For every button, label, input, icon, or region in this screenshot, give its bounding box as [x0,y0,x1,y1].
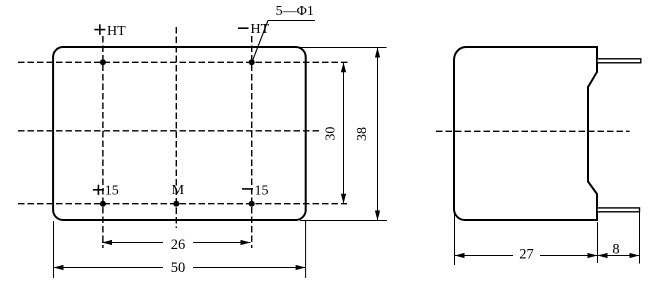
pin dot +HT [100,59,106,65]
svg-text:HT: HT [107,24,126,39]
dimension 26 line [102,242,163,244]
dimension 27 left arrow [455,253,465,258]
label -15 [242,184,269,199]
dimension 8 left arrow [598,253,608,258]
dimension 30 top arrow [341,62,346,72]
dimension 50 right arrow [296,265,306,270]
centerline vertical through -HT and -15 [251,36,253,248]
dimension 26 left arrow [102,240,112,245]
hole callout underline [268,20,315,22]
svg-text:27: 27 [519,247,534,263]
left view body outline [53,47,306,220]
svg-text:8: 8 [612,242,619,258]
side view bottom pin [597,208,640,212]
dimension 27-8 shared extension line [597,222,599,263]
dimension 50 extension line left [53,221,55,278]
dimension 30 line [343,62,345,203]
pin dot -15 [249,201,255,207]
svg-text:5—Φ1: 5—Φ1 [276,4,314,19]
pin dot M [173,201,179,207]
dimension 50 line [54,267,164,269]
centerline horizontal bottom pins row [18,203,347,205]
side view centerline [436,130,630,132]
dimension 8 extension line right [639,212,641,264]
dimension 38 extension line top [300,47,387,49]
centerline vertical through +HT and +15 [102,36,104,248]
dimension 30 bottom arrow [341,194,346,204]
svg-text:50: 50 [171,260,186,276]
svg-text:26: 26 [171,237,186,253]
pin dot -HT [249,59,255,65]
side view body outline [454,47,597,220]
centerline horizontal top pins row [18,61,348,63]
side view top pin [597,59,641,63]
pin dot +15 [100,201,106,207]
dimension 38 bottom arrow [375,211,380,221]
svg-text:15: 15 [105,183,119,198]
label +15 [93,183,119,198]
svg-text:15: 15 [255,184,269,199]
dimension 26 right arrow [241,240,251,245]
label +HT [94,24,126,39]
dimension 50 left arrow [54,265,64,270]
centerline vertical through M [175,27,177,228]
dimension 27 extension line left [454,210,456,265]
dimension 8 right arrow [630,253,640,258]
label -HT [238,22,270,37]
svg-text:38: 38 [355,127,370,141]
hole callout leader line [252,21,268,63]
svg-text:30: 30 [324,127,339,141]
dimension 38 top arrow [375,48,380,58]
dimension 8 line [598,255,640,257]
dimension 38 extension line bottom [300,220,387,222]
dimension 27 line [455,255,514,257]
dimension 50 extension line right [305,221,307,278]
dimension 27 right arrow [588,253,598,258]
svg-text:M: M [172,183,185,198]
centerline horizontal middle [18,130,319,132]
dimension 38 line [377,47,379,220]
